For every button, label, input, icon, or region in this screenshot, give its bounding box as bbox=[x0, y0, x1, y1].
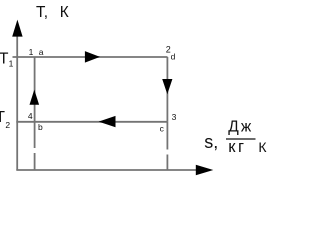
T1 label bbox=[0, 50, 14, 68]
node 4 label bbox=[28, 111, 33, 121]
s axis unit label "s," bbox=[204, 132, 218, 152]
arrow on adiabat 2-3 (pointing down) bbox=[162, 79, 172, 94]
T axis (vertical) bbox=[16, 32, 18, 170]
svg-text:кг: кг bbox=[228, 138, 246, 156]
unit denominator кг bbox=[228, 138, 246, 156]
svg-text:a: a bbox=[39, 47, 44, 57]
node b label bbox=[38, 122, 43, 132]
svg-text:d: d bbox=[171, 52, 176, 62]
adiabat 2-3 (right side of cycle) bbox=[166, 57, 168, 122]
svg-text:4: 4 bbox=[28, 111, 33, 121]
node d label bbox=[171, 52, 176, 62]
svg-text:К: К bbox=[60, 4, 69, 21]
drop line from point 3/c to s axis bbox=[166, 122, 168, 170]
node a label bbox=[39, 47, 44, 57]
arrow on isotherm 1-2 (pointing right) bbox=[85, 51, 100, 63]
axis label T, K bbox=[36, 4, 69, 21]
svg-text:s,: s, bbox=[204, 132, 218, 152]
svg-text:3: 3 bbox=[172, 112, 177, 122]
svg-text:Т,: Т, bbox=[36, 4, 48, 21]
svg-text:Дж: Дж bbox=[228, 118, 253, 135]
svg-text:К: К bbox=[258, 139, 267, 155]
svg-text:1: 1 bbox=[29, 47, 34, 57]
node 1 label bbox=[29, 47, 34, 57]
unit numerator Дж bbox=[228, 118, 253, 135]
svg-text:b: b bbox=[38, 122, 43, 132]
svg-text:2: 2 bbox=[5, 120, 10, 130]
isotherm T1 line (process 1-2) bbox=[13, 56, 168, 58]
arrow on adiabat 4-1 (pointing up) bbox=[30, 90, 40, 105]
unit К after fraction bbox=[258, 139, 267, 155]
adiabat 4-1 (left side of cycle) bbox=[34, 57, 36, 122]
T axis arrowhead bbox=[12, 20, 22, 37]
isotherm T2 line (process 3-4) bbox=[16, 121, 167, 123]
fraction bar bbox=[226, 138, 256, 140]
node 3 label bbox=[172, 112, 177, 122]
s axis (horizontal) bbox=[16, 169, 199, 171]
T2 label bbox=[0, 109, 10, 130]
drop line from point 4/b to s axis bbox=[34, 122, 36, 170]
svg-text:1: 1 bbox=[9, 59, 14, 69]
node c label bbox=[160, 124, 165, 134]
s axis arrowhead bbox=[196, 165, 214, 176]
arrow on isotherm 3-4 (pointing left) bbox=[99, 116, 116, 127]
svg-text:c: c bbox=[160, 124, 165, 134]
node 2 label bbox=[166, 44, 171, 54]
